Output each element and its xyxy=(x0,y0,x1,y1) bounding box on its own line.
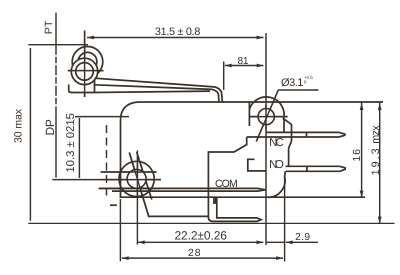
svg-text:81: 81 xyxy=(238,56,249,67)
svg-text:2.9: 2.9 xyxy=(295,232,310,243)
svg-text:NO: NO xyxy=(269,159,284,171)
svg-text:NC: NC xyxy=(269,137,284,149)
svg-text:19.3: 19.3 xyxy=(370,148,382,175)
svg-text:31.5 ± 0.8: 31.5 ± 0.8 xyxy=(155,26,201,38)
svg-text:10.3 ± 0215: 10.3 ± 0215 xyxy=(65,113,77,173)
svg-text:16: 16 xyxy=(352,149,363,162)
svg-text:DP: DP xyxy=(43,119,57,135)
svg-text:22.2±0.26: 22.2±0.26 xyxy=(174,229,227,243)
svg-text:30 max: 30 max xyxy=(13,108,25,143)
svg-text:PT: PT xyxy=(43,20,55,34)
svg-text:Ø3.1: Ø3.1 xyxy=(281,77,303,89)
svg-text:mzx: mzx xyxy=(370,125,382,144)
svg-text:COM: COM xyxy=(215,178,238,190)
svg-text:28: 28 xyxy=(188,248,201,259)
